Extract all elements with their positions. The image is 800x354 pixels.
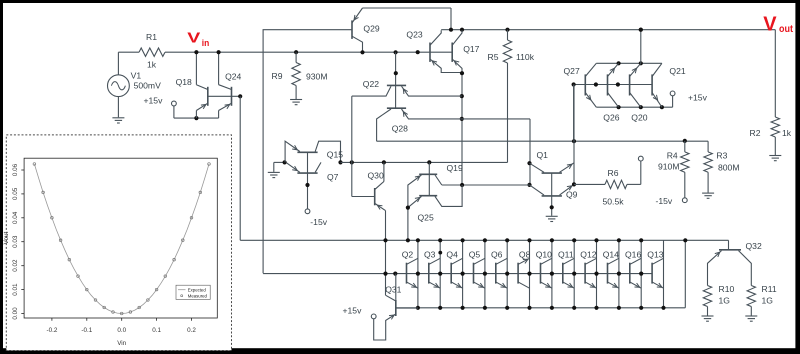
svg-text:0.0: 0.0 <box>117 327 126 334</box>
svg-text:500mV: 500mV <box>134 81 161 91</box>
svg-text:V: V <box>187 30 200 46</box>
svg-text:-15v: -15v <box>310 217 327 227</box>
svg-text:Q6: Q6 <box>491 250 503 260</box>
svg-text:-0.2: -0.2 <box>46 327 57 334</box>
svg-text:Q8: Q8 <box>519 250 531 260</box>
svg-text:V1: V1 <box>131 71 142 81</box>
svg-text:R11: R11 <box>762 284 777 294</box>
svg-text:0.06: 0.06 <box>12 163 19 176</box>
svg-text:1k: 1k <box>782 128 792 138</box>
svg-text:Vin: Vin <box>117 340 126 347</box>
svg-text:Q16: Q16 <box>625 250 641 260</box>
svg-text:Q29: Q29 <box>363 24 379 34</box>
svg-text:Q2: Q2 <box>402 250 414 260</box>
svg-text:Q4: Q4 <box>446 250 458 260</box>
svg-text:Q1: Q1 <box>537 150 549 160</box>
svg-text:R4: R4 <box>667 151 678 161</box>
svg-text:R3: R3 <box>716 151 727 161</box>
svg-text:Q31: Q31 <box>385 285 401 295</box>
svg-text:1G: 1G <box>762 296 774 306</box>
svg-text:Q22: Q22 <box>363 79 379 89</box>
svg-text:R5: R5 <box>488 52 499 62</box>
svg-text:-0.1: -0.1 <box>81 327 92 334</box>
svg-text:Vout: Vout <box>3 231 10 244</box>
svg-text:R6: R6 <box>608 168 619 178</box>
svg-text:Q10: Q10 <box>536 250 552 260</box>
svg-text:Q28: Q28 <box>392 124 408 134</box>
svg-text:Expected: Expected <box>188 288 207 293</box>
svg-text:Q12: Q12 <box>580 250 596 260</box>
svg-text:800M: 800M <box>718 163 740 173</box>
svg-text:+15v: +15v <box>343 306 363 316</box>
svg-text:R2: R2 <box>750 128 761 138</box>
svg-text:0.03: 0.03 <box>12 235 19 248</box>
svg-text:0.04: 0.04 <box>12 211 19 224</box>
svg-text:Q5: Q5 <box>469 250 481 260</box>
svg-text:Q19: Q19 <box>447 163 463 173</box>
svg-text:Measured: Measured <box>188 294 208 299</box>
svg-text:R1: R1 <box>146 32 157 42</box>
svg-text:Q17: Q17 <box>463 44 479 54</box>
svg-text:R10: R10 <box>719 284 735 294</box>
svg-text:V: V <box>763 14 777 36</box>
svg-text:Q24: Q24 <box>225 72 241 82</box>
svg-text:Q21: Q21 <box>669 66 685 76</box>
svg-text:1k: 1k <box>147 60 157 70</box>
svg-text:930M: 930M <box>306 72 328 82</box>
svg-text:Q20: Q20 <box>631 113 647 123</box>
svg-text:50.5k: 50.5k <box>603 197 625 207</box>
svg-text:+15v: +15v <box>144 96 164 106</box>
svg-text:Q25: Q25 <box>418 213 434 223</box>
svg-text:Q14: Q14 <box>603 250 619 260</box>
svg-text:in: in <box>202 38 210 48</box>
svg-text:Q15: Q15 <box>327 150 343 160</box>
svg-text:110k: 110k <box>516 52 535 62</box>
svg-text:0.02: 0.02 <box>12 259 19 272</box>
svg-text:0.1: 0.1 <box>152 327 161 334</box>
svg-text:910M: 910M <box>658 162 680 172</box>
svg-text:+15v: +15v <box>688 93 708 103</box>
svg-text:Q32: Q32 <box>746 241 762 251</box>
svg-text:R9: R9 <box>272 71 283 81</box>
svg-text:1G: 1G <box>719 296 731 306</box>
svg-text:-15v: -15v <box>656 196 673 206</box>
svg-text:Q26: Q26 <box>603 113 619 123</box>
svg-text:Q3: Q3 <box>424 250 436 260</box>
svg-text:Q18: Q18 <box>176 77 192 87</box>
svg-text:0.2: 0.2 <box>187 327 196 334</box>
svg-text:Q30: Q30 <box>368 171 384 181</box>
svg-text:Q27: Q27 <box>564 66 580 76</box>
svg-text:Q9: Q9 <box>566 190 578 200</box>
svg-text:0.05: 0.05 <box>12 187 19 200</box>
svg-text:Q7: Q7 <box>327 172 339 182</box>
svg-text:Q13: Q13 <box>647 250 663 260</box>
svg-text:Q23: Q23 <box>406 30 422 40</box>
svg-text:Q11: Q11 <box>558 250 574 260</box>
svg-text:0.00: 0.00 <box>12 307 19 320</box>
svg-text:0.01: 0.01 <box>12 283 19 296</box>
svg-text:out: out <box>779 23 793 35</box>
